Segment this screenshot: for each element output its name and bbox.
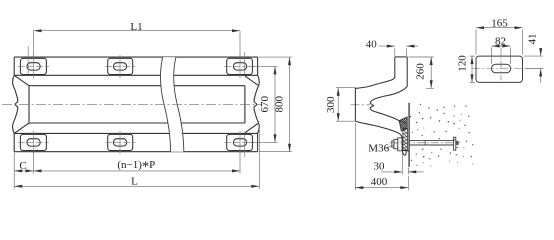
wire chamfer top-right: [245, 76, 258, 85]
dim 400 exts: [354, 123, 356, 190]
mounting plates top row: [20, 58, 252, 150]
dim 41 exts: [524, 55, 544, 57]
svg-text:L: L: [131, 175, 138, 187]
dim 120 exts: [470, 55, 476, 57]
slot 1 bottom centerlines: [33, 131, 35, 154]
slot 2 top centerlines: [119, 55, 121, 78]
svg-text:82: 82: [495, 36, 506, 48]
wire top outline: [14, 56, 257, 58]
anchor end plate: [454, 137, 456, 150]
ext slot1 bottom: [33, 151, 35, 174]
slot 3 bottom centerlines: [239, 131, 241, 154]
slot bottom 3: [233, 139, 246, 146]
dim 800 ext bottom: [259, 151, 292, 153]
wire front face right edge: [244, 86, 246, 123]
svg-text:M36: M36: [368, 142, 389, 154]
svg-text:800: 800: [274, 96, 286, 113]
foot bottom curl: [402, 151, 406, 155]
dim L ext left: [13, 174, 15, 190]
dim L1 ext left: [33, 31, 35, 58]
aux vertical line plate1 top: [27, 46, 29, 75]
slot bottom 1: [27, 139, 40, 146]
wire chamfer top-left: [14, 75, 29, 85]
side view centerline stub: [351, 104, 371, 106]
dim L ext right: [258, 127, 260, 189]
anchor end nub: [456, 141, 459, 145]
detail slot centerline horizontal: [473, 68, 527, 70]
svg-text:41: 41: [527, 34, 539, 45]
plate bottom 3: [227, 134, 253, 150]
side profile outer edge: [355, 57, 402, 151]
slot top 2: [113, 63, 126, 70]
side profile inner edge: [370, 57, 407, 124]
plate top 2: [108, 58, 133, 74]
anchor bolt nut: [392, 139, 398, 148]
svg-text:670: 670: [259, 96, 271, 113]
wire bottom shoulder line: [14, 132, 257, 134]
bolt protruding tip: [392, 141, 394, 147]
dim C ext: [13, 153, 15, 174]
wire right end vertical bottom: [257, 133, 259, 151]
detail slot centerline vertical: [500, 48, 502, 81]
dim 670 line: [274, 66, 276, 142]
svg-text:L1: L1: [130, 21, 142, 33]
dim 400 line: [355, 187, 408, 189]
dim C line: [14, 170, 33, 172]
dim 120 line: [471, 56, 473, 82]
dim 82 line: [492, 45, 511, 47]
anchor bolt shaft: [409, 137, 458, 150]
svg-text:400: 400: [371, 176, 388, 188]
dim 300 line: [337, 88, 339, 122]
dim 165 exts: [475, 30, 477, 55]
left end bell silhouette: [13, 75, 18, 133]
slot bottom 2: [113, 139, 126, 146]
aux vertical line plate3 bottom: [243, 134, 245, 157]
svg-text:165: 165: [491, 17, 508, 29]
break line right: [174, 57, 184, 152]
plate bottom 2: [108, 134, 133, 150]
dim 670 ext bottom: [249, 141, 278, 143]
svg-text:30: 30: [374, 161, 386, 173]
wall face line: [408, 103, 410, 167]
slot centerlines: [18, 46, 255, 157]
slot top 3: [233, 63, 246, 70]
dim 41 line with outside arrows: [540, 49, 542, 56]
detail slot: [491, 64, 510, 73]
dim 800 line: [289, 57, 291, 152]
dim 30 line: [381, 171, 402, 173]
break gap white mask: [160, 57, 183, 152]
dim L1 line: [34, 30, 241, 32]
dim 800 ext top: [259, 56, 292, 58]
dim 30 exts: [401, 152, 403, 175]
svg-text:(n−1)*P: (n−1)*P: [117, 159, 155, 175]
wire chamfer bottom-left: [14, 123, 29, 133]
wire front face top edge: [29, 85, 245, 87]
slot top 1: [27, 63, 40, 70]
foot bottom closure: [402, 150, 409, 152]
dim 670 ext top: [249, 65, 278, 67]
side profile neck top: [395, 56, 407, 58]
dim L line: [14, 185, 259, 187]
svg-text:120: 120: [457, 55, 469, 72]
svg-text:40: 40: [366, 39, 378, 51]
dim 165 line: [476, 27, 523, 29]
wire bottom outline: [14, 151, 257, 153]
right end bell silhouette: [254, 75, 259, 133]
break line left: [160, 57, 170, 152]
bolt centerline: [390, 142, 461, 144]
anchor bolt washer plate: [398, 138, 402, 151]
wire left end vertical top: [13, 57, 15, 75]
dim 40 line: [379, 45, 395, 47]
leader M36: [386, 145, 393, 148]
foot hatch parallelogram: [399, 117, 407, 131]
dim 82 exts: [491, 48, 493, 65]
wire chamfer bottom-right: [245, 124, 258, 133]
concrete stipple dots: [410, 104, 474, 167]
plate top 3: [227, 58, 253, 74]
svg-text:C: C: [19, 160, 26, 172]
dim 300 exts: [336, 87, 357, 89]
dim L1 ext right: [239, 31, 241, 58]
dim 260 exts: [409, 56, 434, 58]
wire right end vertical top: [257, 57, 259, 75]
wire front face left edge: [28, 86, 30, 123]
dim (n-1)*P ext right: [239, 151, 241, 174]
plate top 1: [20, 58, 46, 74]
flange strip along wall: [403, 128, 408, 150]
slot 1 top centerlines: [33, 55, 35, 78]
svg-text:260: 260: [415, 63, 427, 80]
dim 40 exts: [394, 49, 396, 57]
wire front face bottom edge: [29, 122, 245, 124]
slot 3 top centerlines: [239, 55, 241, 78]
detail plate outline: [476, 56, 523, 82]
aux vertical line plate3 top: [243, 52, 245, 75]
wire left end vertical bottom: [13, 133, 15, 151]
dim 260 line: [430, 57, 432, 88]
plate bottom 1: [20, 134, 46, 150]
beam centerline: [2, 103, 263, 105]
wire top shoulder line: [14, 74, 257, 76]
slot 2 bottom centerlines: [119, 131, 121, 154]
shaft coupling tick: [424, 141, 426, 145]
svg-text:300: 300: [325, 96, 337, 113]
dim (n-1)*P line: [34, 170, 241, 172]
